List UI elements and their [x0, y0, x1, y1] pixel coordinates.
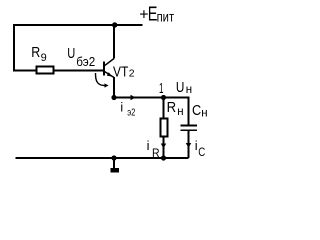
label +Eпит: [139, 4, 174, 26]
current arrow iR: [161, 144, 167, 149]
wire Rн bottom: [163, 138, 165, 159]
label VT2: [113, 64, 135, 80]
junction dot node 1 / Rн top: [161, 95, 166, 100]
svg-text:C: C: [192, 102, 201, 119]
svg-text:VT: VT: [113, 64, 128, 80]
junction dot emitter node: [111, 95, 116, 100]
svg-text:9: 9: [41, 52, 47, 64]
ground: [111, 158, 120, 173]
label Uн: [176, 80, 192, 96]
wire emitter vertical: [113, 77, 115, 98]
svg-text:C: C: [198, 147, 205, 159]
svg-text:э2: э2: [127, 107, 135, 119]
label R9: [31, 45, 46, 64]
junction dot ground node: [111, 155, 116, 160]
wire collector vertical: [113, 25, 115, 59]
svg-text:i: i: [147, 138, 150, 153]
capacitor Cн: [180, 126, 197, 131]
wire output horizontal: [114, 97, 189, 99]
wire base right segment: [53, 70, 103, 72]
wire base left segment: [13, 70, 36, 72]
wire Cн bottom: [188, 131, 190, 158]
svg-text:бэ2: бэ2: [76, 55, 95, 69]
svg-text:н: н: [201, 107, 207, 119]
svg-text:U: U: [176, 80, 185, 96]
power rail +Eпит (top wire): [13, 24, 143, 26]
svg-text:U: U: [67, 46, 75, 62]
svg-text:i: i: [195, 138, 198, 153]
label iC: [195, 138, 206, 159]
wire Rн top: [163, 98, 165, 119]
label iR: [147, 138, 160, 160]
wire left vertical: [13, 24, 15, 71]
svg-text:R: R: [31, 45, 40, 61]
label Uбэ2: [67, 46, 95, 69]
resistor R9: [36, 67, 53, 74]
svg-text:2: 2: [129, 67, 135, 79]
svg-text:пит: пит: [157, 9, 175, 25]
svg-text:i: i: [120, 100, 123, 114]
transistor VT2: [104, 59, 114, 78]
junction dot top rail / collector: [112, 22, 117, 27]
resistor Rн: [161, 119, 168, 137]
label iэ2: [120, 100, 135, 118]
label Cн: [192, 102, 208, 119]
svg-text:н: н: [186, 84, 192, 96]
label Rн: [167, 100, 184, 118]
bottom ground rail: [16, 157, 189, 159]
svg-text:н: н: [177, 106, 183, 118]
current arrow iC: [186, 143, 192, 148]
current arrow iэ2: [131, 95, 136, 101]
svg-text:1: 1: [159, 80, 164, 97]
junction dot Rн bottom: [161, 155, 166, 160]
svg-text:R: R: [167, 100, 177, 116]
voltage arrow Uбэ2 (curved): [95, 73, 108, 88]
wire Cн top: [188, 97, 190, 126]
